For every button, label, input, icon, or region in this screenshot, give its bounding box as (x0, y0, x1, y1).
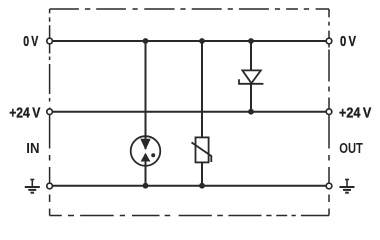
junction ground / GDT (143, 183, 149, 189)
dash-dot enclosure border bottom (50, 215, 329, 217)
wire 0V rail (50, 40, 329, 42)
junction 0V / varistor (199, 38, 205, 44)
svg-text:IN: IN (26, 141, 39, 157)
terminal left ground (47, 183, 53, 189)
dash-dot enclosure border top (50, 8, 329, 10)
svg-text:0 V: 0 V (340, 34, 356, 50)
svg-text:OUT: OUT (339, 141, 363, 157)
junction ground / varistor (199, 183, 205, 189)
terminal right 0V (326, 38, 332, 44)
gas discharge tube F1 (131, 136, 161, 167)
wire ground rail (50, 185, 329, 187)
dash-dot enclosure border right (328, 9, 330, 216)
varistor RV1 (192, 137, 212, 162)
svg-text:+24 V: +24 V (9, 105, 40, 121)
suppressor diode D1 (239, 70, 263, 83)
wire branch varistor (201, 41, 203, 186)
terminal left 0V (47, 38, 53, 44)
junction +24V / diode (248, 109, 254, 115)
terminal right +24V (326, 109, 332, 115)
svg-text:0 V: 0 V (23, 34, 38, 50)
dash-dot enclosure border left (49, 9, 51, 216)
junction 0V / GDT (143, 38, 149, 44)
wire branch gas discharge tube (145, 41, 147, 186)
ground symbol right (340, 180, 355, 193)
wire branch diode (250, 41, 252, 112)
terminal right ground (326, 183, 332, 189)
ground symbol left (25, 180, 40, 193)
svg-text:+24 V: +24 V (339, 105, 372, 121)
terminal left +24V (47, 109, 53, 115)
junction 0V / diode (248, 38, 254, 44)
wire +24V rail (50, 111, 329, 113)
